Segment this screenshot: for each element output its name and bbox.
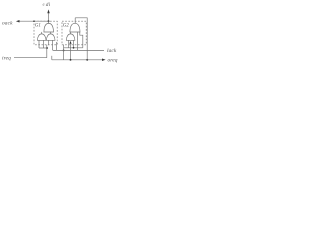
label G1 — [35, 24, 41, 29]
svg-text:a: a — [43, 3, 45, 7]
wire lack riser — [76, 32, 78, 51]
junction dot G2 bus — [73, 47, 75, 49]
junction dot box corner — [33, 20, 35, 22]
wire ireq horizontal — [14, 57, 47, 59]
junction dot ireq — [46, 47, 48, 49]
module box G2 (dashed) — [62, 21, 86, 45]
wire G1 input stub c — [48, 40, 50, 45]
svg-text:di: di — [46, 2, 51, 8]
wire G2 inner bus — [64, 47, 83, 49]
wire G2 right input route — [80, 32, 83, 48]
wire bottom left stub — [51, 56, 53, 60]
gate G1 AND left (small dome) — [37, 34, 46, 40]
wire G2 input stub b — [73, 40, 75, 48]
node lack (right label) — [107, 48, 117, 54]
svg-text:G1: G1 — [35, 24, 41, 29]
wire G2 bus drop — [70, 44, 72, 60]
junction dot jog — [63, 49, 65, 51]
gate G2 OR (big dome) — [70, 23, 80, 32]
svg-text:oack: oack — [2, 20, 13, 26]
wire ireq riser — [46, 45, 48, 58]
node di (top label) — [43, 2, 51, 8]
gate G2 AND (small dome) — [66, 34, 75, 40]
module box G1 (dashed) — [34, 21, 57, 45]
wire G1 output stub — [48, 21, 50, 23]
wire stub G2 AND to OR — [70, 32, 72, 34]
arrowhead left oack — [16, 20, 20, 23]
svg-text:G2: G2 — [63, 24, 70, 29]
svg-text:lack: lack — [107, 48, 117, 54]
wire G1 input stub d — [53, 40, 54, 50]
arrowhead right oreq — [102, 59, 106, 62]
wire jog right of G1 — [56, 42, 58, 50]
wire ireq bus under G1 — [39, 47, 47, 49]
junction dot oreq — [86, 59, 88, 61]
label G2 — [63, 24, 70, 29]
wire G1 input stub a — [38, 40, 40, 48]
gate G1 AND right (small dome) — [46, 34, 55, 40]
wire G1 input stub b — [43, 40, 45, 48]
node ireq (left label) — [2, 55, 11, 61]
wire di output vertical — [48, 13, 50, 21]
wire oreq bottom horizontal — [52, 59, 103, 61]
wire G2 output top route — [75, 18, 87, 60]
gate G1 OR (big dome) — [44, 23, 54, 32]
wire stub AND-R to OR — [50, 32, 52, 34]
wire G2 feed vertical — [63, 45, 65, 60]
junction dot at G1 output — [48, 20, 50, 22]
svg-text:ireq: ireq — [2, 55, 11, 61]
wire oack horizontal — [19, 20, 48, 22]
arrowhead up into G2 AND gate — [69, 41, 71, 44]
node oack (left label) — [2, 20, 13, 26]
wire G2 input stub a — [68, 40, 70, 48]
wire stub AND-L to OR — [41, 32, 43, 34]
arrowhead up to di — [47, 9, 50, 13]
wire lack horizontal — [54, 49, 105, 51]
node oreq (right label) — [108, 58, 118, 64]
junction dot bus drop — [70, 59, 72, 61]
svg-text:oreq: oreq — [108, 58, 118, 64]
wire G2 output stub — [74, 18, 76, 24]
